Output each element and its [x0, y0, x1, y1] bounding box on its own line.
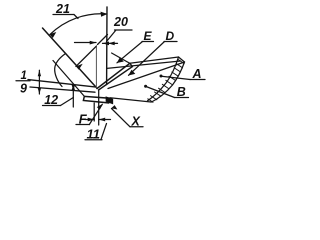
label B leader: [146, 87, 175, 98]
backing strip: [83, 96, 109, 103]
label B underline: [175, 97, 189, 99]
upper extension line: [28, 80, 95, 87]
right plate top front edge: [108, 62, 185, 89]
label F leader: [89, 104, 102, 124]
root face arrow: [72, 85, 74, 108]
label 20 leader: [107, 30, 117, 42]
label 12 leader: [61, 98, 74, 106]
svg-text:9: 9: [20, 82, 27, 96]
arc arrowhead left: [50, 32, 57, 38]
right plate break left curve: [148, 57, 179, 101]
top face front edge: [107, 61, 181, 68]
fraction bar 1/9: [16, 80, 30, 82]
label E underline: [142, 41, 154, 43]
label 21 leader: [74, 15, 78, 19]
svg-text:21: 21: [55, 2, 70, 16]
svg-text:B: B: [177, 85, 186, 99]
label D underline: [164, 41, 177, 43]
bevel line left (extension): [43, 28, 98, 88]
label X underline: [130, 126, 143, 128]
bevel corner connector: [130, 63, 133, 66]
svg-text:20: 20: [113, 15, 128, 29]
right bevel extension line: [98, 35, 108, 45]
gap extension line left: [93, 103, 95, 121]
right plate top back edge: [130, 57, 179, 63]
svg-text:11: 11: [87, 127, 101, 142]
svg-text:F: F: [79, 112, 88, 127]
svg-text:1: 1: [21, 70, 27, 82]
angle arc 21: [50, 14, 107, 35]
thickness dim line: [38, 70, 40, 94]
label F underline: [76, 124, 90, 126]
svg-text:12: 12: [44, 93, 58, 107]
gap dim arrow right: [99, 119, 111, 121]
label 21 underline: [53, 14, 74, 16]
label A underline: [190, 79, 205, 81]
svg-text:X: X: [131, 114, 141, 128]
right plate root face edge: [98, 90, 100, 103]
groove centerline: [95, 46, 97, 88]
svg-text:E: E: [144, 29, 153, 43]
label 11 underline: [85, 139, 102, 141]
left plate break curve: [55, 54, 66, 87]
label 20 underline: [115, 29, 133, 31]
right plate bottom front edge: [110, 98, 151, 102]
gap extension line right: [98, 103, 100, 125]
right plate bevel top edge: [112, 53, 130, 63]
label X leader: [112, 109, 131, 127]
dim arrow left (20): [75, 42, 97, 44]
label 12 underline: [43, 105, 61, 107]
label D leader: [129, 42, 165, 76]
label 11 leader: [101, 124, 107, 140]
label A leader: [162, 76, 191, 79]
lower extension line: [30, 87, 95, 92]
label E leader: [117, 42, 143, 63]
root dark blob: [106, 97, 112, 103]
svg-text:D: D: [166, 29, 175, 43]
right plate break top edge: [179, 57, 185, 62]
arc arrowhead right: [101, 12, 108, 17]
right plate bevel back edge: [97, 63, 130, 88]
bevel angle arc 20: [76, 47, 96, 67]
svg-text:A: A: [192, 67, 202, 81]
vertical extension line: [106, 7, 108, 85]
dim arrow right (20): [103, 42, 118, 44]
gap dim arrow left: [85, 119, 94, 121]
right plate break right curve: [152, 62, 185, 102]
right plate bevel face lower edge: [99, 67, 133, 91]
left plate bevel front edge: [53, 61, 85, 97]
hatch strokes on break band: [148, 59, 184, 102]
